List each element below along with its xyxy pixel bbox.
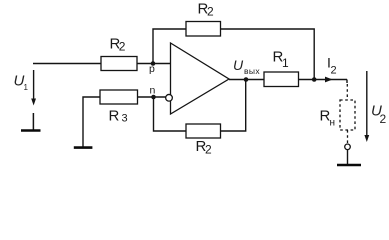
wire input top from U1 to R2: [33, 63, 101, 65]
wire node p up to top feedback R2: [153, 29, 186, 64]
wire dashed below Rn: [347, 130, 349, 144]
svg-text:н: н: [330, 118, 336, 129]
voltage arrow U2: [364, 71, 369, 142]
resistor R2 top feedback: [186, 22, 221, 37]
op-amp inverting input bubble: [166, 94, 173, 101]
wire dashed down to Rn: [346, 84, 348, 100]
wire R1 to load corner: [299, 79, 348, 81]
resistor R2 bottom feedback: [186, 124, 221, 138]
terminal circle: [345, 144, 351, 150]
node I2 junction dot: [312, 77, 317, 82]
svg-text:n: n: [150, 85, 156, 97]
svg-text:2: 2: [380, 112, 387, 126]
svg-text:1: 1: [282, 56, 289, 70]
wire terminal to ground right: [347, 150, 349, 164]
ground middle: [74, 97, 100, 148]
node Uvyh junction dot: [244, 77, 249, 82]
wire node n down to bottom feedback R2: [154, 97, 187, 131]
wire top feedback R2 to output node: [221, 29, 315, 80]
resistor R2 input: [101, 57, 137, 71]
ground right: [337, 164, 361, 167]
load resistor Rn dashed box: [340, 100, 355, 130]
wire op-amp output: [229, 79, 264, 81]
resistor R1: [264, 72, 299, 87]
svg-text:3: 3: [122, 113, 128, 125]
svg-text:U: U: [233, 57, 244, 73]
svg-text:2: 2: [205, 143, 212, 157]
node p junction dot: [151, 61, 156, 66]
svg-text:1: 1: [24, 83, 29, 92]
svg-text:2: 2: [331, 65, 337, 77]
svg-text:вых: вых: [244, 66, 260, 76]
resistor R3: [100, 90, 138, 104]
ground left: [21, 113, 41, 131]
wire bottom feedback R2 up to output node: [221, 80, 246, 132]
wire R3 to node n and op-amp bubble: [138, 96, 166, 98]
svg-text:2: 2: [207, 5, 214, 19]
svg-text:2: 2: [119, 40, 126, 54]
node n junction dot: [151, 95, 156, 100]
current arrow I2: [325, 77, 333, 83]
op-amp U1 triangle: [171, 43, 230, 114]
wire corner down to load (solid stub): [346, 80, 348, 84]
source arrow U1: [31, 70, 36, 106]
wire R2 to node p and op-amp: [137, 63, 171, 65]
svg-text:p: p: [149, 63, 155, 75]
svg-text:R: R: [109, 108, 120, 125]
